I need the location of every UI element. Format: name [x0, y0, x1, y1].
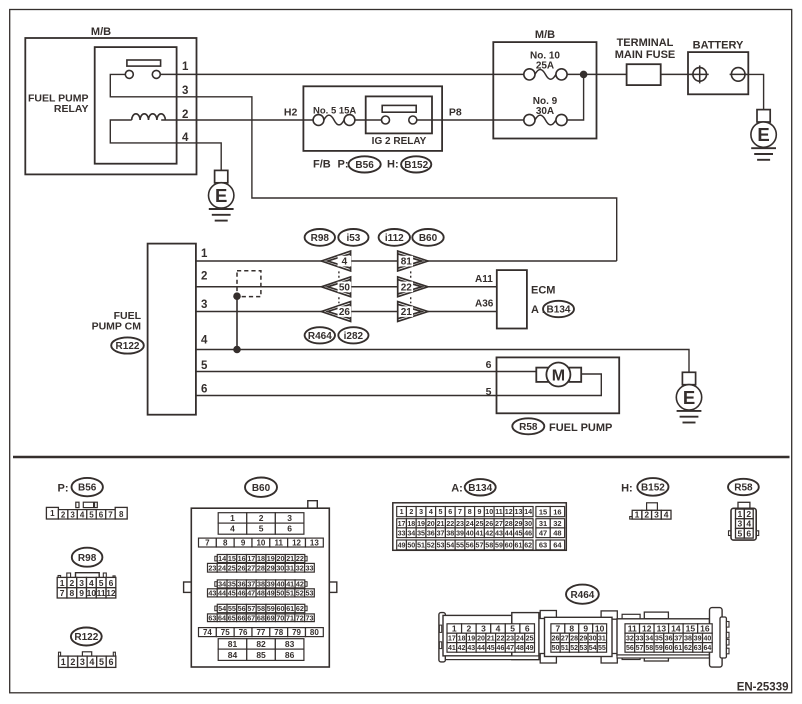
svg-text:20: 20	[427, 520, 435, 528]
svg-text:23: 23	[208, 563, 216, 572]
wire row3 module pin3 to ECM A36	[196, 311, 497, 313]
connector R122 callout (pinout)	[71, 628, 102, 646]
fuel pump motor M1	[536, 363, 581, 387]
svg-text:13: 13	[657, 624, 667, 634]
svg-text:54: 54	[446, 541, 454, 549]
module pin 6	[201, 383, 207, 395]
svg-text:82: 82	[256, 639, 266, 649]
svg-text:79: 79	[292, 628, 301, 637]
svg-text:2: 2	[201, 271, 207, 283]
svg-text:22: 22	[446, 520, 454, 528]
connector B56 pinout	[46, 502, 127, 520]
connector R122 pinout	[59, 652, 116, 668]
svg-text:MAIN FUSE: MAIN FUSE	[615, 49, 676, 61]
svg-text:21: 21	[487, 635, 495, 642]
svg-text:5: 5	[99, 657, 104, 667]
svg-text:B60: B60	[419, 233, 438, 244]
svg-text:19: 19	[467, 635, 475, 642]
svg-text:28: 28	[570, 635, 578, 642]
svg-text:58: 58	[257, 604, 265, 613]
wire shield drain to row4	[236, 296, 238, 349]
svg-text:58: 58	[645, 645, 653, 652]
svg-text:28: 28	[257, 563, 265, 572]
svg-text:48: 48	[257, 588, 265, 597]
svg-text:60: 60	[665, 645, 673, 652]
connector B56 callout (pinout)	[72, 478, 103, 496]
svg-text:5: 5	[89, 511, 94, 520]
svg-text:H:: H:	[387, 159, 399, 171]
svg-text:11: 11	[97, 588, 106, 598]
svg-text:14: 14	[524, 508, 532, 516]
svg-text:36: 36	[427, 529, 435, 537]
svg-text:16: 16	[238, 554, 246, 563]
svg-text:11: 11	[495, 508, 503, 516]
svg-text:A11: A11	[475, 274, 493, 285]
connector R58 pinout	[729, 502, 759, 540]
svg-text:17: 17	[398, 520, 406, 528]
svg-text:47: 47	[539, 528, 547, 537]
svg-text:1: 1	[201, 248, 208, 260]
svg-text:2: 2	[467, 624, 472, 634]
svg-text:29: 29	[579, 635, 587, 642]
wire row2 module pin2 to ECM A11	[196, 286, 497, 288]
svg-text:26: 26	[237, 563, 245, 572]
svg-text:55: 55	[456, 541, 464, 549]
ground E (fuel pump relay)	[209, 170, 234, 220]
wire pin3 run to node at row1	[177, 97, 617, 261]
svg-text:55: 55	[598, 645, 606, 652]
svg-text:26: 26	[485, 520, 493, 528]
svg-text:24: 24	[466, 520, 474, 528]
svg-text:6: 6	[525, 624, 530, 634]
wire pin4 to ground	[177, 143, 222, 171]
svg-text:44: 44	[218, 588, 226, 597]
svg-text:86: 86	[285, 650, 295, 660]
svg-text:49: 49	[526, 645, 534, 652]
svg-text:5: 5	[259, 524, 264, 534]
svg-text:63: 63	[694, 645, 702, 652]
connector R58 callout (inline)	[512, 418, 544, 434]
svg-text:45: 45	[487, 645, 495, 652]
svg-text:20: 20	[477, 635, 485, 642]
F/B fusebox box (IG2 relay)	[303, 86, 442, 151]
svg-text:34: 34	[645, 635, 653, 642]
label ECM	[531, 285, 555, 297]
svg-text:11: 11	[275, 538, 284, 547]
svg-text:H2: H2	[284, 106, 298, 118]
label FUEL PUMP RELAY	[28, 93, 88, 115]
connector B60 pinout	[184, 501, 337, 667]
svg-text:H:: H:	[621, 483, 633, 495]
svg-text:50: 50	[276, 588, 284, 597]
module pin 1	[201, 248, 208, 260]
svg-text:72: 72	[296, 613, 304, 622]
svg-text:73: 73	[305, 613, 313, 622]
svg-text:PUMP CM: PUMP CM	[92, 320, 142, 332]
svg-text:19: 19	[417, 520, 425, 528]
svg-text:52: 52	[570, 645, 578, 652]
label A: (B134 pinout)	[451, 483, 463, 495]
connector B152 callout (pinout)	[637, 478, 668, 496]
svg-text:77: 77	[256, 628, 265, 637]
svg-text:47: 47	[247, 588, 255, 597]
svg-text:83: 83	[285, 639, 295, 649]
svg-text:R58: R58	[734, 483, 753, 494]
svg-text:56: 56	[466, 541, 474, 549]
svg-text:R58: R58	[519, 422, 538, 433]
svg-text:10: 10	[87, 588, 97, 598]
wire battery to ground	[745, 74, 764, 109]
svg-text:76: 76	[239, 628, 248, 637]
svg-text:15: 15	[539, 507, 547, 516]
dotted link left arrows rows2-3	[338, 297, 340, 303]
M/B fusebox enclosure (fuel pump relay)	[25, 38, 196, 174]
svg-text:52: 52	[296, 588, 304, 597]
svg-text:43: 43	[208, 588, 216, 597]
svg-text:8: 8	[69, 588, 74, 598]
svg-text:16: 16	[553, 507, 561, 516]
svg-text:13: 13	[515, 508, 523, 516]
svg-text:50: 50	[552, 645, 560, 652]
svg-text:2: 2	[259, 513, 264, 523]
svg-text:40: 40	[276, 579, 284, 588]
svg-text:EN-25339: EN-25339	[737, 681, 789, 693]
svg-text:66: 66	[237, 613, 245, 622]
svg-text:45: 45	[515, 529, 523, 537]
svg-text:B56: B56	[78, 483, 97, 494]
svg-text:61: 61	[286, 604, 294, 613]
svg-text:18: 18	[458, 635, 466, 642]
svg-text:22: 22	[497, 635, 505, 642]
shield box (dashed)	[237, 271, 261, 297]
connector i53 callout	[338, 229, 368, 246]
battery positive terminal	[691, 65, 709, 83]
svg-text:6: 6	[109, 657, 114, 667]
svg-text:6: 6	[746, 528, 751, 538]
svg-text:50: 50	[407, 541, 415, 549]
svg-text:4: 4	[89, 657, 94, 667]
svg-text:62: 62	[296, 604, 304, 613]
svg-text:30: 30	[589, 635, 597, 642]
connector R464 callout (inline)	[305, 327, 335, 343]
fuel pump pin 6 label	[486, 359, 492, 371]
svg-text:62: 62	[524, 541, 532, 549]
svg-text:38: 38	[257, 579, 265, 588]
fuse No. 5 15A label	[313, 105, 356, 116]
svg-text:6: 6	[448, 508, 452, 516]
dotted link right arrows rows2-3	[410, 297, 412, 303]
svg-text:4: 4	[230, 524, 235, 534]
svg-text:23: 23	[456, 520, 464, 528]
svg-text:40: 40	[466, 529, 474, 537]
battery box	[688, 52, 748, 94]
svg-text:26: 26	[552, 635, 560, 642]
node P8	[449, 106, 462, 118]
svg-text:6: 6	[99, 511, 104, 520]
svg-text:2: 2	[69, 578, 74, 588]
svg-text:48: 48	[516, 645, 524, 652]
svg-text:48: 48	[553, 528, 561, 537]
svg-text:51: 51	[417, 541, 425, 549]
svg-text:4: 4	[201, 335, 208, 347]
svg-text:9: 9	[241, 538, 246, 547]
relay pin 1	[182, 61, 189, 73]
svg-text:M/B: M/B	[535, 29, 555, 41]
svg-text:E: E	[757, 124, 769, 145]
ground E (fuel pump)	[676, 372, 701, 422]
svg-text:40: 40	[703, 635, 711, 642]
svg-text:P:: P:	[338, 159, 349, 171]
svg-text:i112: i112	[385, 233, 404, 244]
svg-text:53: 53	[437, 541, 445, 549]
svg-text:1: 1	[738, 509, 743, 519]
svg-text:45: 45	[228, 588, 236, 597]
svg-text:B152: B152	[404, 160, 428, 171]
svg-text:R122: R122	[74, 632, 98, 643]
connector R464 callout (pinout)	[566, 585, 599, 604]
svg-text:P:: P:	[58, 483, 69, 495]
svg-text:59: 59	[267, 604, 275, 613]
module pin 3	[201, 299, 207, 311]
svg-text:47: 47	[506, 645, 514, 652]
label P:	[338, 159, 349, 171]
svg-text:3: 3	[654, 510, 659, 520]
svg-text:67: 67	[247, 613, 255, 622]
svg-text:59: 59	[655, 645, 663, 652]
wire relay coil to pin2 / IG2 relay feed	[161, 119, 313, 121]
dotted link right arrows rows1-2	[410, 271, 412, 278]
svg-text:31: 31	[598, 635, 606, 642]
svg-text:3: 3	[738, 519, 743, 529]
svg-text:61: 61	[515, 541, 523, 549]
svg-text:E: E	[683, 387, 695, 408]
svg-text:18: 18	[257, 554, 265, 563]
svg-text:43: 43	[495, 529, 503, 537]
svg-text:2: 2	[409, 508, 413, 516]
svg-text:32: 32	[296, 563, 304, 572]
svg-text:1: 1	[60, 578, 65, 588]
svg-text:M: M	[552, 367, 565, 384]
ground E (battery)	[751, 110, 776, 160]
connector arrow pin 21 (row3 right)	[398, 302, 428, 322]
fuel pump relay box	[95, 47, 177, 164]
svg-text:57: 57	[476, 541, 484, 549]
IG 2 relay box	[366, 96, 432, 133]
svg-text:65: 65	[228, 613, 236, 622]
svg-text:3: 3	[287, 513, 292, 523]
svg-text:6: 6	[287, 524, 292, 534]
svg-text:10: 10	[485, 508, 493, 516]
svg-text:i282: i282	[344, 331, 364, 342]
svg-text:2: 2	[61, 511, 66, 520]
ECM box	[497, 270, 527, 328]
battery negative terminal	[730, 68, 747, 82]
svg-text:75: 75	[221, 628, 230, 637]
label BATTERY	[693, 40, 744, 52]
svg-text:21: 21	[437, 520, 445, 528]
fuel pump control module box	[148, 244, 196, 415]
connector arrow pin 50 (row2 left)	[321, 277, 351, 297]
svg-text:R464: R464	[570, 590, 594, 601]
svg-text:56: 56	[238, 604, 246, 613]
svg-text:52: 52	[427, 541, 435, 549]
connector B152 pinout	[630, 503, 671, 520]
svg-text:21: 21	[401, 307, 413, 318]
label TERMINAL MAIN FUSE	[615, 37, 676, 61]
svg-text:R98: R98	[78, 553, 97, 564]
svg-text:58: 58	[485, 541, 493, 549]
dotted link left arrows rows1-2	[338, 271, 340, 278]
svg-text:53: 53	[305, 588, 313, 597]
svg-text:55: 55	[228, 604, 236, 613]
svg-text:1: 1	[50, 509, 55, 518]
svg-text:20: 20	[276, 554, 284, 563]
svg-text:8: 8	[468, 508, 472, 516]
svg-text:1: 1	[452, 624, 457, 634]
relay pin 4	[182, 132, 189, 144]
svg-text:35: 35	[655, 635, 663, 642]
svg-text:74: 74	[203, 628, 212, 637]
wire row6 module pin6 to fuel pump	[196, 374, 601, 396]
svg-text:25: 25	[526, 635, 534, 642]
connector B60 callout (pinout)	[245, 478, 277, 497]
svg-text:42: 42	[485, 529, 493, 537]
svg-text:3: 3	[70, 511, 75, 520]
svg-text:32: 32	[626, 635, 634, 642]
svg-text:64: 64	[553, 541, 562, 550]
connector R98 callout (top)	[305, 229, 335, 246]
svg-text:1: 1	[61, 657, 66, 667]
label EN-25339	[737, 681, 789, 693]
node A11	[475, 274, 493, 285]
connector i112 callout	[379, 229, 410, 246]
svg-text:26: 26	[339, 307, 351, 318]
svg-text:3: 3	[481, 624, 486, 634]
svg-text:B56: B56	[355, 160, 374, 171]
svg-text:61: 61	[674, 645, 682, 652]
svg-text:85: 85	[256, 650, 266, 660]
svg-text:81: 81	[228, 639, 238, 649]
wire terminal fuse to battery	[661, 73, 693, 75]
wire row5 module pin5 to fuel pump	[196, 371, 536, 373]
svg-text:25: 25	[228, 563, 236, 572]
svg-text:51: 51	[286, 588, 294, 597]
fuel pump relay contact	[125, 60, 160, 78]
node A36	[475, 299, 494, 310]
svg-text:A36: A36	[475, 299, 494, 310]
wire fuse No.9 to junction	[567, 74, 584, 120]
svg-text:4: 4	[89, 578, 94, 588]
svg-text:7: 7	[556, 624, 561, 634]
node H2	[284, 106, 298, 118]
svg-text:3: 3	[79, 578, 84, 588]
svg-text:1: 1	[635, 510, 640, 520]
svg-text:32: 32	[553, 519, 561, 528]
svg-text:63: 63	[208, 613, 216, 622]
fuse No. 9	[524, 114, 567, 125]
svg-text:60: 60	[276, 604, 284, 613]
junction dot battery feed	[580, 71, 587, 78]
svg-text:3: 3	[80, 657, 85, 667]
svg-text:3: 3	[201, 299, 207, 311]
relay pin 3	[182, 85, 188, 97]
connector B56 callout	[349, 156, 381, 172]
svg-text:R98: R98	[311, 233, 330, 244]
svg-text:5: 5	[510, 624, 515, 634]
wire fuse No.10 to terminal fuse	[567, 73, 627, 75]
svg-text:2: 2	[182, 109, 188, 121]
wire fuse No.5 to IG2 relay contact	[355, 119, 382, 121]
connector B134 callout (ECM)	[543, 301, 574, 317]
svg-text:15: 15	[228, 554, 236, 563]
svg-text:50: 50	[339, 282, 351, 293]
connector R464 pinout	[439, 608, 729, 668]
svg-text:41: 41	[286, 579, 294, 588]
svg-text:5: 5	[201, 360, 208, 372]
fuse No. 5	[313, 115, 355, 126]
junction dot shield	[234, 293, 241, 300]
svg-text:25: 25	[476, 520, 484, 528]
svg-text:14: 14	[671, 624, 681, 634]
svg-text:34: 34	[218, 579, 226, 588]
svg-text:46: 46	[497, 645, 505, 652]
svg-text:54: 54	[589, 645, 597, 652]
svg-text:19: 19	[267, 554, 275, 563]
svg-text:57: 57	[636, 645, 644, 652]
fuel pump relay coil	[132, 114, 166, 120]
svg-text:37: 37	[247, 579, 255, 588]
svg-text:RELAY: RELAY	[54, 103, 89, 115]
svg-text:8: 8	[223, 538, 228, 547]
svg-text:A:: A:	[451, 483, 463, 495]
label FUEL PUMP	[549, 422, 612, 434]
connector arrow pin 26 (row3 left)	[321, 302, 351, 322]
svg-text:62: 62	[684, 645, 692, 652]
svg-text:78: 78	[274, 628, 283, 637]
svg-text:5: 5	[486, 386, 492, 398]
M/B fusebox enclosure (fuses No.10 / No.9)	[493, 42, 596, 138]
label FUEL PUMP CM	[92, 310, 142, 332]
connector B60 callout (top)	[412, 229, 443, 246]
connector arrow pin 81 (row1 right)	[398, 251, 428, 271]
module pin 5	[201, 360, 208, 372]
svg-text:81: 81	[401, 257, 413, 268]
svg-text:7: 7	[108, 511, 113, 520]
svg-text:22: 22	[401, 282, 413, 293]
svg-text:7: 7	[458, 508, 462, 516]
svg-text:36: 36	[665, 635, 673, 642]
svg-text:5: 5	[738, 528, 743, 538]
svg-text:29: 29	[515, 520, 523, 528]
svg-text:i53: i53	[346, 233, 360, 244]
svg-text:4: 4	[664, 510, 669, 520]
fuse No. 10 25A label	[530, 51, 560, 72]
svg-text:4: 4	[80, 511, 85, 520]
svg-text:11: 11	[628, 624, 637, 634]
svg-text:43: 43	[467, 645, 475, 652]
svg-text:31: 31	[539, 519, 547, 528]
svg-text:35: 35	[228, 579, 236, 588]
connector R58 callout (pinout)	[728, 479, 759, 495]
module pin 2	[201, 271, 207, 283]
module pin 4	[201, 335, 208, 347]
svg-text:35: 35	[417, 529, 425, 537]
svg-text:39: 39	[267, 579, 275, 588]
svg-text:51: 51	[561, 645, 569, 652]
svg-text:42: 42	[296, 579, 304, 588]
svg-text:9: 9	[478, 508, 482, 516]
svg-text:9: 9	[79, 588, 84, 598]
